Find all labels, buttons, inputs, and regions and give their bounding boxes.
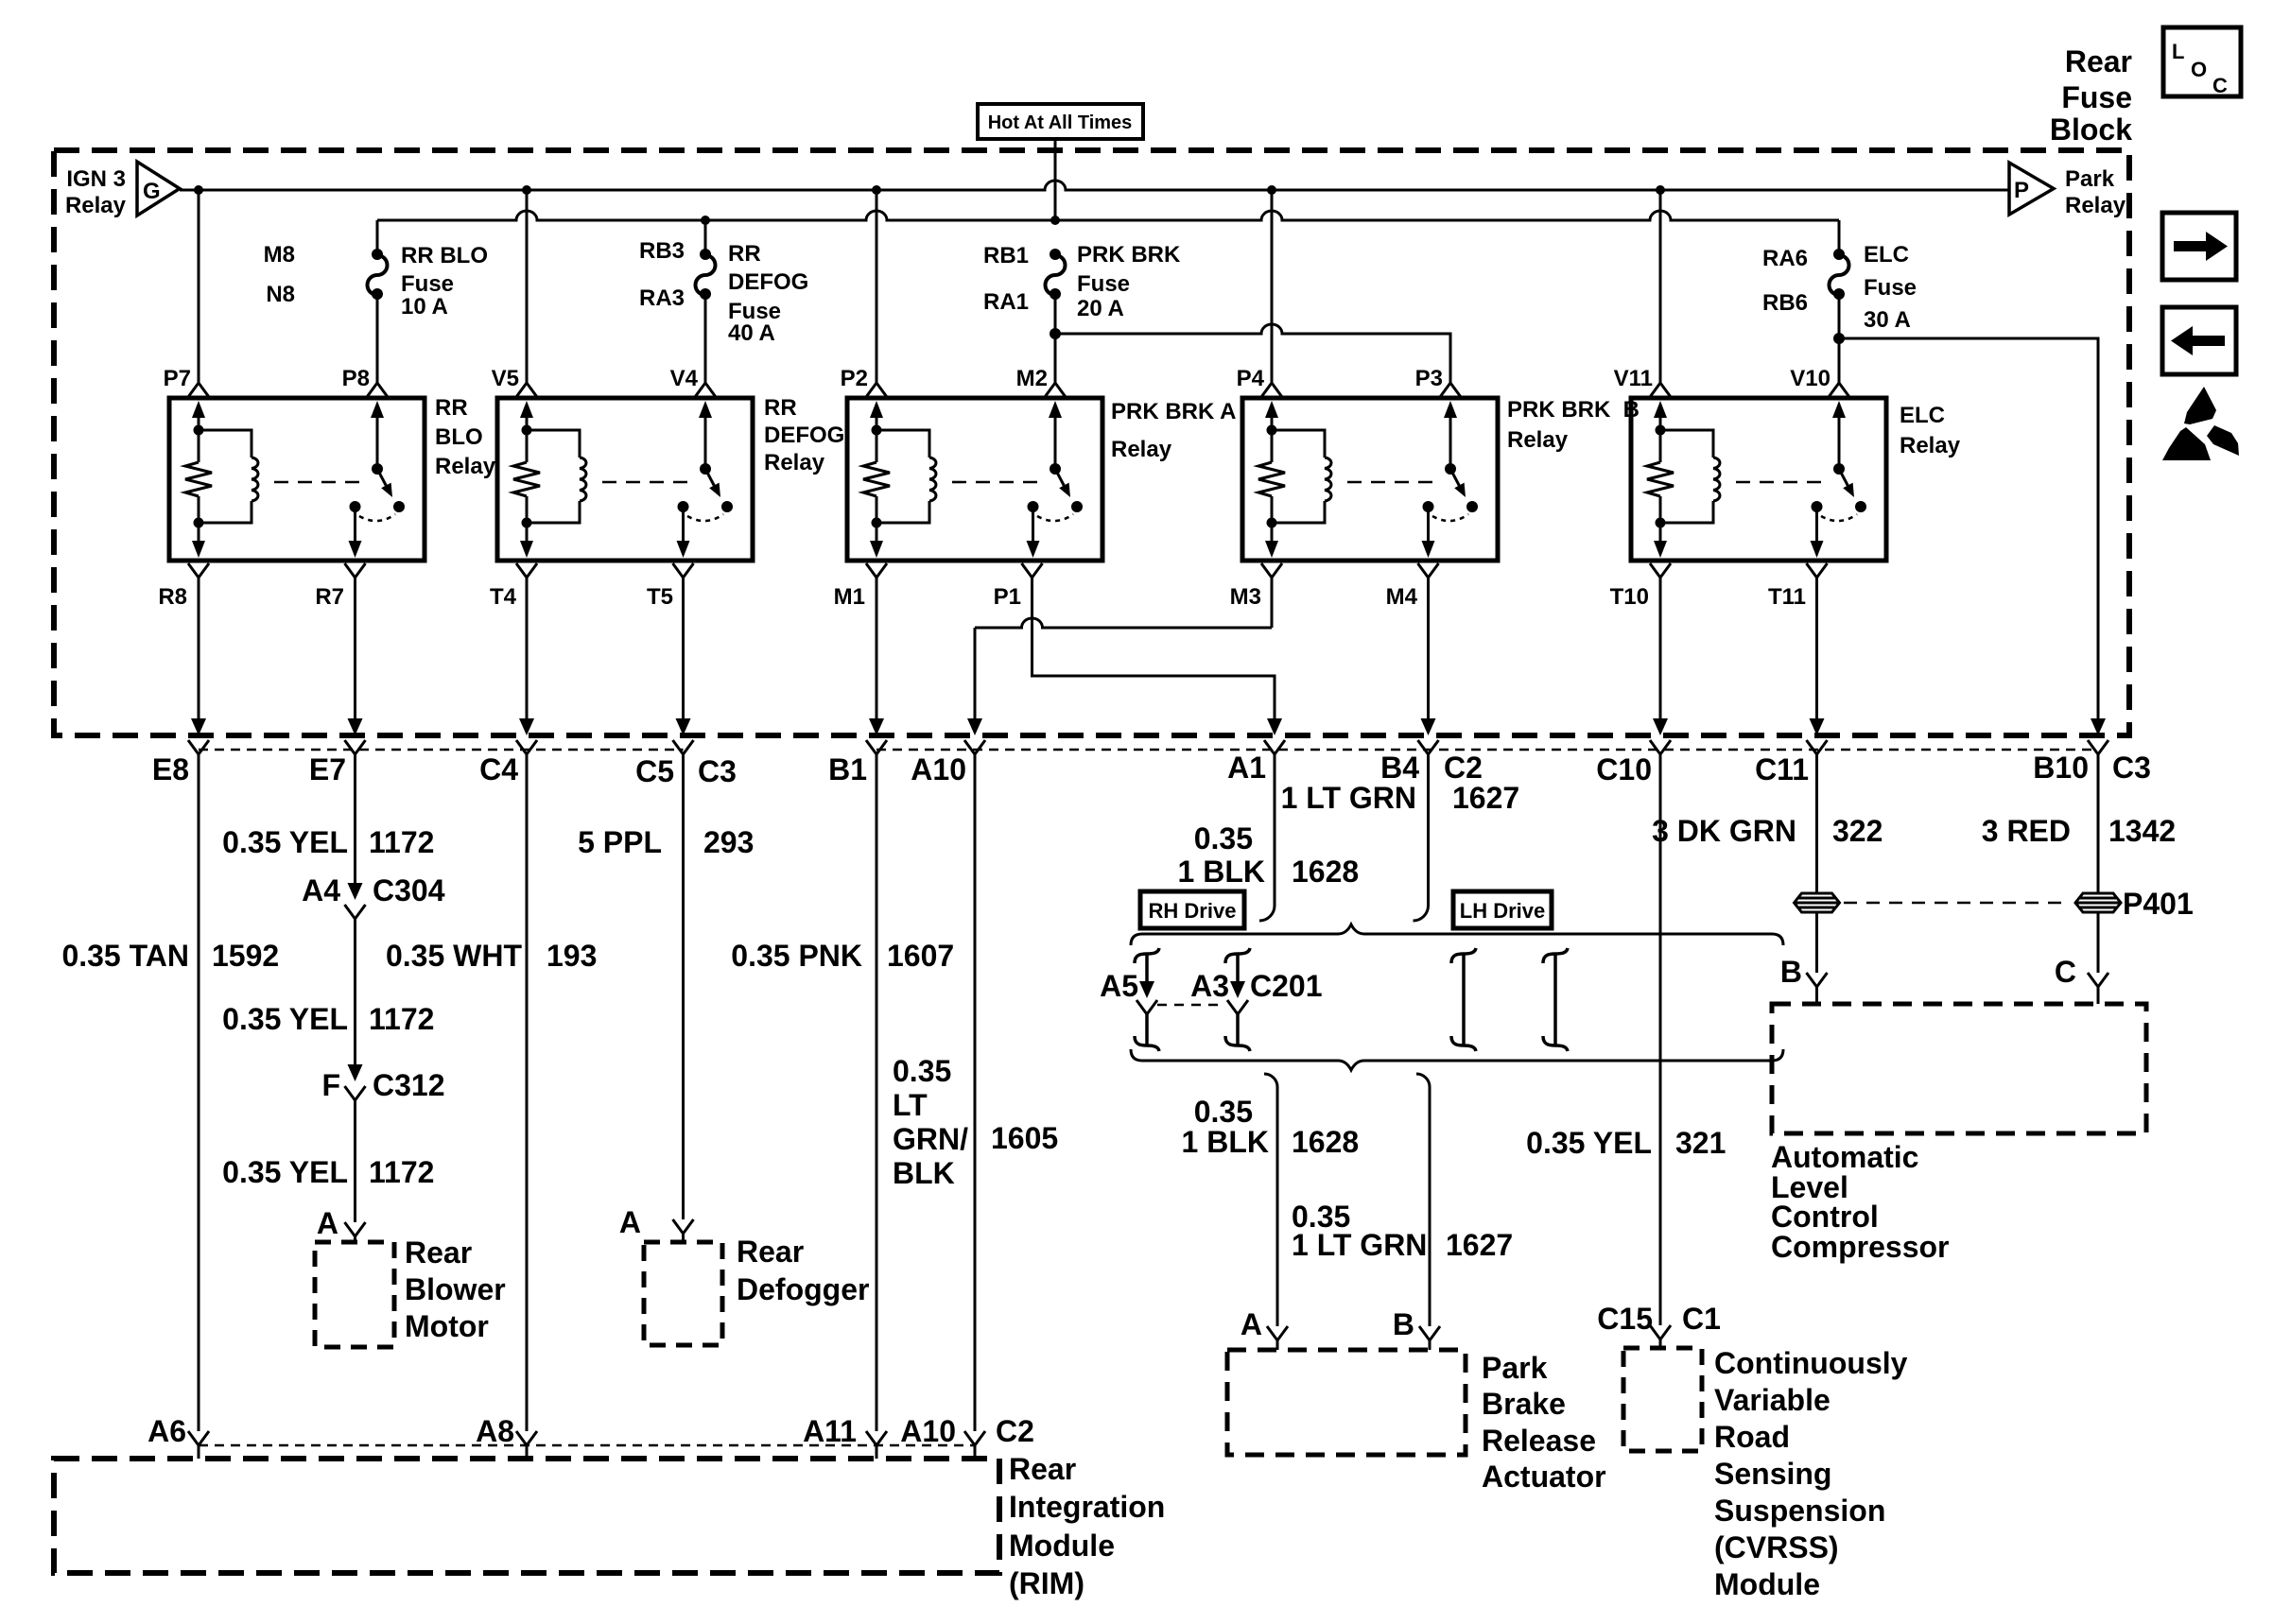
svg-text:A1: A1 <box>1227 751 1266 785</box>
svg-text:40 A: 40 A <box>728 320 775 346</box>
svg-text:0.35 YEL: 0.35 YEL <box>222 1155 348 1189</box>
svg-text:0.35 YEL: 0.35 YEL <box>222 1002 348 1036</box>
svg-text:E8: E8 <box>152 752 189 786</box>
svg-text:GRN/: GRN/ <box>893 1122 968 1156</box>
svg-text:A: A <box>317 1206 338 1240</box>
svg-text:1 BLK: 1 BLK <box>1182 1125 1269 1159</box>
svg-text:Relay: Relay <box>65 193 127 218</box>
svg-text:A5: A5 <box>1100 969 1138 1003</box>
svg-text:M8: M8 <box>264 242 295 268</box>
svg-text:1605: 1605 <box>991 1121 1058 1155</box>
svg-text:Road: Road <box>1714 1420 1790 1454</box>
svg-text:RB3: RB3 <box>639 238 685 264</box>
svg-text:0.35: 0.35 <box>893 1054 951 1088</box>
svg-text:DEFOG: DEFOG <box>728 269 808 295</box>
svg-text:Fuse: Fuse <box>2061 80 2132 114</box>
svg-text:BLO: BLO <box>435 424 483 450</box>
svg-text:Fuse: Fuse <box>1864 275 1917 301</box>
svg-text:1628: 1628 <box>1292 855 1359 889</box>
svg-text:Rear: Rear <box>1009 1452 1076 1486</box>
svg-text:RR: RR <box>728 241 761 267</box>
svg-text:Relay: Relay <box>2065 193 2126 218</box>
svg-text:1607: 1607 <box>887 939 954 973</box>
svg-text:Variable: Variable <box>1714 1383 1831 1417</box>
svg-text:M4: M4 <box>1386 584 1418 610</box>
svg-text:Brake: Brake <box>1482 1387 1566 1421</box>
svg-text:Suspension: Suspension <box>1714 1494 1885 1528</box>
svg-text:V4: V4 <box>670 366 699 391</box>
svg-text:0.35 YEL: 0.35 YEL <box>1526 1126 1652 1160</box>
svg-text:1172: 1172 <box>369 825 434 859</box>
svg-text:C2: C2 <box>996 1414 1034 1448</box>
svg-text:Sensing: Sensing <box>1714 1457 1831 1491</box>
svg-text:A: A <box>1241 1307 1262 1341</box>
svg-text:G: G <box>143 179 161 204</box>
svg-text:DEFOG: DEFOG <box>764 423 844 448</box>
svg-text:Relay: Relay <box>1900 433 1961 458</box>
svg-text:Rear: Rear <box>2065 44 2132 78</box>
svg-text:Block: Block <box>2050 112 2132 147</box>
svg-text:P3: P3 <box>1415 366 1443 391</box>
svg-text:PRK BRK: PRK BRK <box>1077 242 1181 268</box>
svg-text:RR: RR <box>764 395 797 421</box>
svg-text:V5: V5 <box>492 366 519 391</box>
svg-text:C2: C2 <box>1444 751 1483 785</box>
svg-text:N8: N8 <box>266 282 295 307</box>
svg-text:(RIM): (RIM) <box>1009 1566 1084 1600</box>
svg-text:P8: P8 <box>342 366 370 391</box>
svg-text:Rear: Rear <box>405 1235 472 1270</box>
svg-text:RB1: RB1 <box>983 243 1029 268</box>
svg-text:P: P <box>2014 178 2029 203</box>
svg-text:M3: M3 <box>1230 584 1261 610</box>
svg-text:P1: P1 <box>994 584 1021 610</box>
svg-text:RB6: RB6 <box>1762 290 1808 316</box>
svg-text:IGN 3: IGN 3 <box>66 166 126 192</box>
svg-text:0.35 YEL: 0.35 YEL <box>222 825 348 859</box>
svg-text:Release: Release <box>1482 1424 1596 1458</box>
svg-text:A8: A8 <box>476 1414 514 1448</box>
svg-text:Actuator: Actuator <box>1482 1460 1606 1494</box>
svg-text:R8: R8 <box>158 584 187 610</box>
svg-text:Relay: Relay <box>1111 437 1172 462</box>
svg-text:1627: 1627 <box>1452 781 1519 815</box>
svg-text:0.35: 0.35 <box>1194 821 1253 855</box>
svg-text:1172: 1172 <box>369 1002 434 1036</box>
svg-text:ELC: ELC <box>1900 403 1945 428</box>
svg-text:Motor: Motor <box>405 1309 489 1343</box>
svg-text:C: C <box>2055 955 2076 989</box>
svg-text:B: B <box>1780 955 1802 989</box>
svg-text:3 DK GRN: 3 DK GRN <box>1652 814 1796 848</box>
svg-text:A10: A10 <box>900 1414 956 1448</box>
svg-text:T5: T5 <box>647 584 673 610</box>
svg-text:C312: C312 <box>373 1068 445 1102</box>
svg-text:Integration: Integration <box>1009 1490 1165 1524</box>
svg-text:B1: B1 <box>828 752 867 786</box>
svg-text:A3: A3 <box>1190 969 1229 1003</box>
svg-text:C: C <box>2212 74 2228 97</box>
svg-text:V10: V10 <box>1790 366 1831 391</box>
svg-text:322: 322 <box>1832 814 1883 848</box>
svg-text:1342: 1342 <box>2108 814 2176 848</box>
svg-text:Blower: Blower <box>405 1272 506 1306</box>
svg-text:0.35 PNK: 0.35 PNK <box>731 939 862 973</box>
svg-text:Module: Module <box>1714 1567 1820 1601</box>
svg-text:PRK BRK A: PRK BRK A <box>1111 399 1236 424</box>
svg-text:0.35 TAN: 0.35 TAN <box>61 939 189 973</box>
svg-text:Relay: Relay <box>1507 427 1569 453</box>
svg-text:C3: C3 <box>2112 751 2151 785</box>
svg-text:1 LT GRN: 1 LT GRN <box>1281 781 1416 815</box>
svg-text:RR BLO: RR BLO <box>401 243 488 268</box>
svg-text:LT: LT <box>893 1088 928 1122</box>
svg-text:Fuse: Fuse <box>1077 271 1130 297</box>
svg-text:20 A: 20 A <box>1077 296 1124 321</box>
svg-text:C201: C201 <box>1250 969 1323 1003</box>
svg-text:E7: E7 <box>309 752 346 786</box>
svg-text:A: A <box>619 1205 641 1239</box>
svg-text:Rear: Rear <box>737 1235 804 1269</box>
svg-text:Continuously: Continuously <box>1714 1346 1908 1380</box>
svg-text:A11: A11 <box>803 1414 857 1448</box>
svg-text:0.35 WHT: 0.35 WHT <box>386 939 522 973</box>
svg-text:P4: P4 <box>1237 366 1265 391</box>
svg-text:ELC: ELC <box>1864 242 1909 268</box>
svg-text:1628: 1628 <box>1292 1125 1359 1159</box>
svg-text:(CVRSS): (CVRSS) <box>1714 1530 1839 1564</box>
svg-text:30 A: 30 A <box>1864 307 1911 333</box>
svg-text:M2: M2 <box>1016 366 1048 391</box>
svg-text:1627: 1627 <box>1446 1228 1513 1262</box>
svg-text:1172: 1172 <box>369 1155 434 1189</box>
svg-text:Hot At All Times: Hot At All Times <box>988 112 1133 133</box>
svg-text:321: 321 <box>1675 1126 1726 1160</box>
svg-text:3 RED: 3 RED <box>1982 814 2071 848</box>
svg-text:B4: B4 <box>1380 751 1419 785</box>
svg-text:C10: C10 <box>1596 752 1652 786</box>
svg-text:M1: M1 <box>834 584 865 610</box>
svg-text:V11: V11 <box>1614 366 1653 391</box>
svg-text:1592: 1592 <box>212 939 279 973</box>
svg-text:P7: P7 <box>164 366 191 391</box>
svg-text:C5: C5 <box>635 754 674 788</box>
svg-text:C3: C3 <box>698 754 737 788</box>
svg-text:Relay: Relay <box>764 450 825 475</box>
svg-text:Relay: Relay <box>435 454 496 479</box>
svg-text:B: B <box>1393 1307 1414 1341</box>
svg-text:Park: Park <box>2065 166 2115 192</box>
svg-text:0.35: 0.35 <box>1194 1095 1253 1129</box>
svg-text:RH Drive: RH Drive <box>1149 899 1237 923</box>
svg-text:L: L <box>2172 40 2184 63</box>
svg-text:P2: P2 <box>841 366 868 391</box>
svg-text:A10: A10 <box>911 752 966 786</box>
svg-text:T10: T10 <box>1610 584 1649 610</box>
svg-text:5 PPL: 5 PPL <box>578 825 662 859</box>
svg-text:C4: C4 <box>479 752 518 786</box>
svg-text:Compressor: Compressor <box>1771 1230 1950 1264</box>
svg-text:PRK BRK B: PRK BRK B <box>1507 397 1640 423</box>
svg-text:BLK: BLK <box>893 1156 955 1190</box>
svg-text:T4: T4 <box>490 584 517 610</box>
svg-text:1 BLK: 1 BLK <box>1178 855 1265 889</box>
svg-text:C15: C15 <box>1597 1302 1653 1336</box>
svg-text:RR: RR <box>435 395 468 421</box>
svg-text:293: 293 <box>703 825 754 859</box>
svg-text:RA6: RA6 <box>1762 246 1808 271</box>
svg-text:Automatic: Automatic <box>1771 1140 1918 1174</box>
svg-text:Park: Park <box>1482 1351 1548 1385</box>
svg-text:T11: T11 <box>1768 584 1806 610</box>
svg-text:F: F <box>321 1068 340 1102</box>
svg-text:C11: C11 <box>1755 752 1809 786</box>
svg-text:Fuse: Fuse <box>401 271 454 297</box>
svg-text:C1: C1 <box>1682 1302 1721 1336</box>
svg-text:RA3: RA3 <box>639 285 685 311</box>
svg-text:RA1: RA1 <box>983 289 1029 315</box>
svg-text:A6: A6 <box>147 1414 186 1448</box>
svg-text:P401: P401 <box>2123 887 2194 921</box>
svg-text:O: O <box>2191 58 2207 81</box>
svg-text:LH Drive: LH Drive <box>1460 899 1545 923</box>
svg-text:Control: Control <box>1771 1200 1879 1234</box>
svg-text:193: 193 <box>547 939 597 973</box>
svg-text:10 A: 10 A <box>401 294 448 320</box>
svg-text:Defogger: Defogger <box>737 1272 869 1306</box>
svg-text:A4: A4 <box>302 873 340 907</box>
svg-text:R7: R7 <box>315 584 344 610</box>
svg-text:Module: Module <box>1009 1529 1115 1563</box>
svg-text:B10: B10 <box>2033 751 2089 785</box>
svg-text:1 LT GRN: 1 LT GRN <box>1292 1228 1427 1262</box>
svg-text:C304: C304 <box>373 873 445 907</box>
